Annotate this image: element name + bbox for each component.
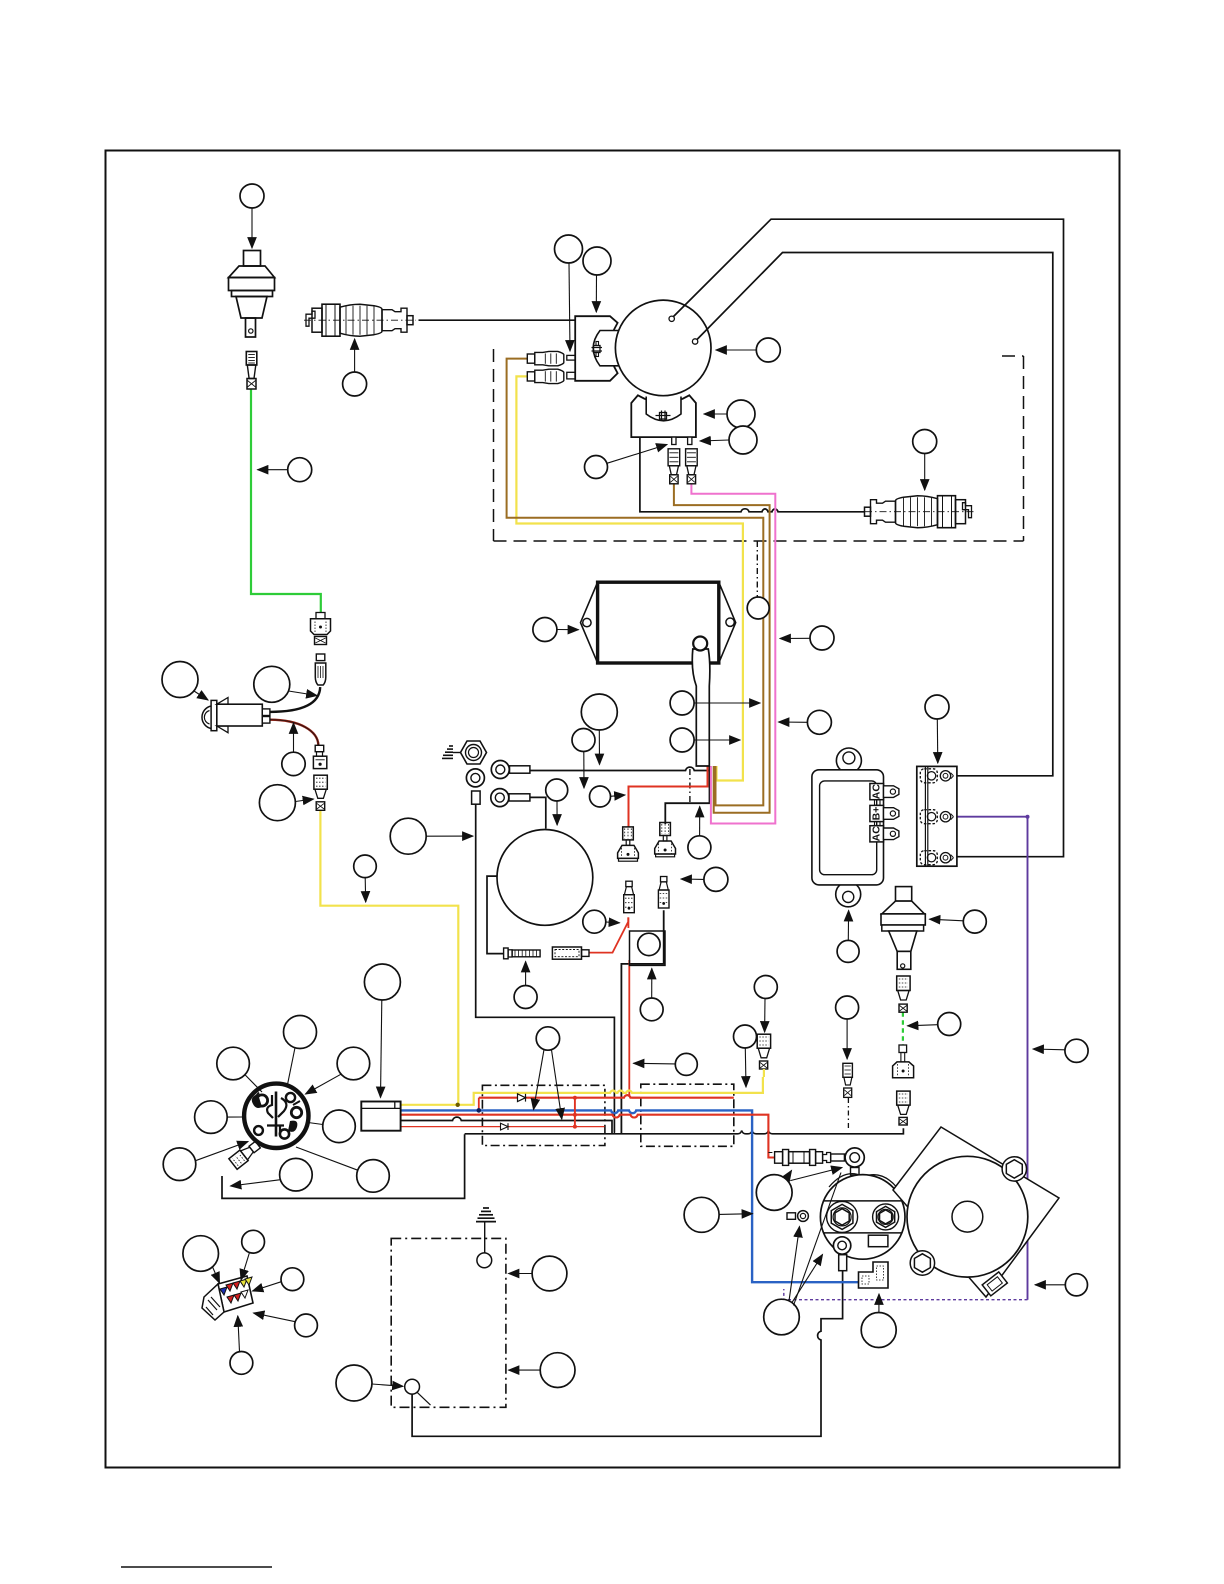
svg-text:AC: AC (871, 784, 883, 800)
svg-text:AC: AC (871, 826, 883, 842)
svg-text:B+: B+ (871, 807, 883, 821)
